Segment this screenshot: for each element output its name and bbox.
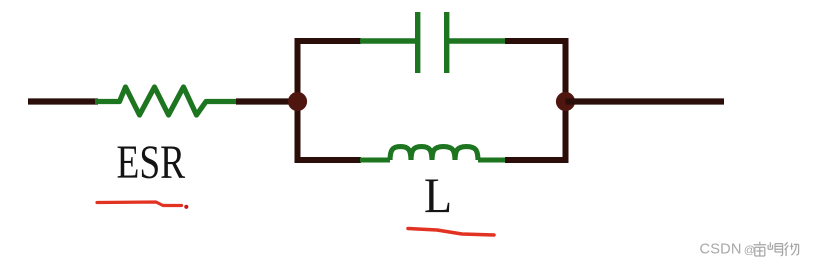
svg-text:ESR: ESR — [117, 137, 186, 189]
svg-text:L: L — [424, 168, 452, 223]
svg-text:@: @ — [744, 244, 756, 256]
watermark CSDN @nanyuche — [700, 242, 799, 258]
node right junction — [556, 92, 575, 111]
glyph che — [785, 242, 799, 256]
capacitor C — [360, 12, 506, 73]
svg-text:CSDN: CSDN — [700, 242, 742, 258]
inductor L — [360, 147, 506, 160]
glyph dao — [768, 242, 783, 255]
wire right vertical branch — [563, 38, 569, 163]
annotation red underline L — [408, 229, 494, 236]
wire right output lead — [566, 98, 725, 104]
wire bottom-left segment — [295, 157, 362, 163]
wire from resistor to left node — [236, 98, 298, 104]
wire left vertical branch — [295, 38, 301, 163]
wire bottom-right segment — [505, 157, 569, 163]
glyph nan — [754, 242, 767, 256]
wire top-left segment — [295, 38, 362, 44]
annotation red underline ESR — [97, 202, 188, 209]
node left junction — [288, 92, 307, 111]
wire top-right segment — [505, 38, 569, 44]
wire left input lead — [28, 98, 98, 104]
resistor ESR — [95, 87, 238, 115]
